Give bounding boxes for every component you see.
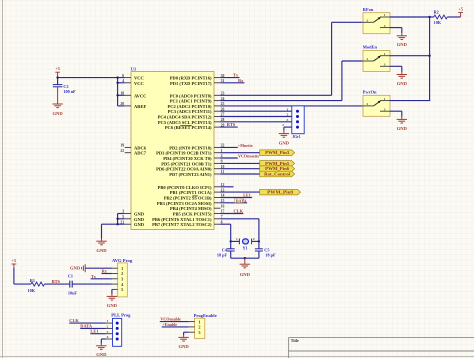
svg-text:CLK: CLK [69,318,79,323]
wire Rx (PD1) [221,82,245,84]
svg-text:22: 22 [120,149,124,153]
wire ProgEnable pin3 to ground [184,331,189,333]
svg-text:AVCC: AVCC [134,93,146,98]
port PWM_Pin6 [260,166,295,172]
wire PC2 to PwrOn [221,105,364,107]
svg-text:PD6 (PCINT22 OC0A AIN0): PD6 (PCINT22 OC0A AIN0) [156,167,212,172]
svg-text:2: 2 [107,325,109,329]
svg-text:5: 5 [121,287,123,292]
wire net LE1 (PB2) [221,197,253,199]
pin 26 PC3 (ADC3 PCINT11) (right) [214,110,221,112]
overline SS on PB2 [192,195,198,197]
pin 4 VCC (left) [125,82,131,84]
capacitor C1 10nF [69,281,71,288]
svg-text:LE1: LE1 [90,329,98,334]
svg-text:3: 3 [384,107,386,111]
svg-text:PD1 (TXD PCINT17): PD1 (TXD PCINT17) [170,81,212,86]
svg-text:PB6 (PCINT6 XTAL1 TOSC1): PB6 (PCINT6 XTAL1 TOSC1) [152,217,212,222]
pin 21 GND (left) [125,223,131,225]
svg-text:C5: C5 [264,247,269,252]
svg-text:100 nF: 100 nF [63,89,76,94]
svg-text:+5: +5 [55,66,59,71]
wire AVG pin1 to GND left [85,267,112,269]
wire PC5 to header [221,121,293,123]
svg-text:1: 1 [384,13,386,17]
svg-text:GND: GND [134,222,145,227]
svg-text:+Muette: +Muette [238,143,253,148]
ground below C3 [57,87,59,104]
svg-text:2: 2 [367,57,369,61]
svg-text:GND: GND [134,217,145,222]
resistor R2 10K [430,16,434,18]
svg-text:3: 3 [384,24,386,28]
svg-text:VCOenable: VCOenable [160,317,181,322]
pin 13 PB1 (PCINT1 OC1A) (right) [214,191,221,193]
svg-text:PWM_Pin9: PWM_Pin9 [267,190,293,195]
wire header pin4 to ground [284,126,292,128]
wire pull-up bus [429,17,431,101]
capacitor C3 100 nF [57,78,59,85]
pin 25 PC2 (ADC2 PCINT10) (right) [214,105,221,107]
connector JGr1 (4-pin header) [292,106,304,134]
wire PC4 to header [221,116,293,118]
wire PD7 to port [221,173,260,175]
wire RFon pin1 [390,16,430,18]
wire PC0 to RFon [221,94,332,96]
pin 5 GND (left) [125,218,131,220]
svg-text:ProgEnable: ProgEnable [194,313,217,318]
svg-text:20: 20 [120,102,124,106]
svg-text:3: 3 [121,277,123,282]
svg-text:PD2 (INT0 PCINT18): PD2 (INT0 PCINT18) [169,145,212,150]
capacitor C5 18 pF [258,241,260,248]
pin 10 PD6 (PCINT22 OC0A AIN0) (right) [214,168,221,170]
pin 15 PB3 (PCINT3 OC2A MOSI) (right) [214,202,221,204]
ground below PLL Prog [100,344,102,346]
wire net DATA (PB3) [221,202,248,204]
pin 2 PLL Prog [106,327,113,329]
wire PD5 to port [221,162,260,164]
svg-text:PD4 (PCINT20 XCK T0): PD4 (PCINT20 XCK T0) [163,156,212,161]
svg-text:PB0 (PCINT0 CLKO ICP1): PB0 (PCINT0 CLKO ICP1) [158,185,212,190]
svg-text:GND: GND [134,212,145,217]
svg-text:PD3 (PCINT19 OC2B INT1): PD3 (PCINT19 OC2B INT1) [156,151,212,156]
svg-text:2: 2 [198,325,200,330]
pin 4 PLL Prog [106,338,113,340]
pin 1 PD3 (PCINT19 OC2B INT1) (right) [214,152,221,154]
pin 3 GND (left) [125,213,131,215]
wire net VCOmuette (PD4) [221,157,238,159]
svg-text:CLK: CLK [234,209,244,214]
pin 28 PC5 (ADC5 SCL PCINT13) (right) [214,121,221,123]
svg-text:PB2 (PCINT2 SS OC1B): PB2 (PCINT2 SS OC1B) [164,196,212,201]
wire PLL pin4 to ground [101,338,106,340]
svg-text:LE1: LE1 [243,193,251,198]
pin 20 AREF (left) [125,105,131,107]
svg-text:PWM_Pin5: PWM_Pin5 [265,161,289,166]
svg-text:ADC6: ADC6 [134,145,147,150]
pin 3 AVG Prog [112,278,118,280]
svg-text:PWM_Pin6: PWM_Pin6 [265,166,289,171]
svg-text:VCOmuette: VCOmuette [238,153,259,158]
pin 29 PC6 (RESET PCINT14) (right) [214,126,221,128]
svg-text:2: 2 [121,271,123,276]
svg-text:C1: C1 [68,273,73,278]
wire PB0 stub [221,186,234,188]
svg-text:PB3 (PCINT3 OC2A MOSI): PB3 (PCINT3 OC2A MOSI) [157,201,212,206]
svg-text:PB7 (PCINT7 XTAL2 TOSC2): PB7 (PCINT7 XTAL2 TOSC2) [152,222,212,227]
svg-text:RFon: RFon [363,7,374,12]
svg-text:DATA: DATA [236,198,247,203]
svg-text:2: 2 [287,113,289,117]
pin 3 ProgEnable [189,331,195,333]
resistor R1 10K [14,283,31,285]
pin 1 PLL Prog [106,322,113,324]
svg-text:GND: GND [107,303,118,308]
svg-text:PC4 (ADC4 SDA PCINT12): PC4 (ADC4 SDA PCINT12) [158,115,212,120]
wire GND pins [117,214,119,225]
svg-text:1: 1 [384,97,386,101]
wire net VCOenable [160,321,189,323]
ground below crystal [244,258,246,264]
wire VCC column [117,78,119,106]
wire AVG pin5 to ground [111,289,113,294]
svg-text:Rot_Control: Rot_Control [264,172,291,177]
svg-text:+5: +5 [12,258,16,263]
svg-text:GND: GND [397,42,408,47]
pin 3 PLL Prog [106,333,113,335]
wire PB6 to crystal right [221,218,259,220]
svg-text:1: 1 [384,52,386,56]
svg-text:AVG Prog: AVG Prog [112,258,133,263]
svg-text:PB1 (PCINT1 OC1A): PB1 (PCINT1 OC1A) [170,190,212,195]
svg-text:4: 4 [282,123,284,127]
svg-text:PC3 (ADC3 PCINT11): PC3 (ADC3 PCINT11) [168,109,212,114]
svg-text:GND: GND [279,141,290,146]
capacitor C4 18 pF [230,241,232,248]
svg-text:JGr1: JGr1 [292,135,301,139]
wire PD3 to port [221,152,260,154]
pin 1 ProgEnable [189,321,195,323]
svg-text:10nF: 10nF [68,291,78,296]
wire net +Enable [162,326,189,328]
svg-text:1: 1 [287,107,289,111]
svg-text:GND: GND [96,248,107,253]
wire net Rx (AVG pin2) [102,273,112,275]
port PWM_Pin9 [260,189,301,195]
svg-text:AREF: AREF [134,104,147,109]
pin 24 PC1 (ADC1 PCINT9) (right) [214,100,221,102]
ground (sideways) at AVG pin1 [84,264,86,272]
port PWM_Pin3 [260,150,295,156]
svg-text:18 pF: 18 pF [265,253,276,258]
svg-text:PD7 (PCINT23 AIN1): PD7 (PCINT23 AIN1) [169,172,212,177]
pin 23 PC0 (ADC0 PCINT8) (right) [214,94,221,96]
ground for header [283,131,285,134]
pin 30 PD0 (RXD PCINT16) (right) [214,77,221,79]
svg-text:C4: C4 [222,247,228,252]
wire PC3 to header [221,110,293,112]
svg-text:PD5 (PCINT21 OC0B T1): PD5 (PCINT21 OC0B T1) [161,161,212,166]
wire +5 to VCC [58,77,125,79]
crystal Y1 [231,240,240,242]
op-amp U1 ATmega MCU body [131,72,214,230]
wire crystal bottom [231,257,259,259]
node VCC junction [56,76,58,78]
svg-text:6: 6 [122,74,124,78]
wire RTS (PC6) [221,126,238,128]
svg-text:2: 2 [253,237,255,241]
svg-text:4: 4 [122,79,124,83]
svg-text:ADC7: ADC7 [134,151,147,156]
overline RESET on PC6 [180,125,192,127]
pin 14 PB2 (PCINT2 SS OC1B) (right) [214,197,221,199]
title block [288,337,290,358]
svg-text:3: 3 [107,330,109,334]
svg-text:10K: 10K [434,20,442,25]
wire net Tx (AVG pin3) [91,278,112,280]
svg-text:3: 3 [198,330,200,335]
ground below ProgEnable [183,335,185,337]
pin 4 AVG Prog [112,283,118,285]
svg-text:Y1: Y1 [243,245,248,250]
pin 9 PD5 (PCINT21 OC0B T1) (right) [214,162,221,164]
wire net DATA (PLL pin2) [80,327,106,329]
wire PD6 to port [221,168,260,170]
pin 31 PD1 (TXD PCINT17) (right) [214,82,221,84]
wire C1 to header [72,283,112,285]
pin 2 PD4 (PCINT20 XCK T0) (right) [214,157,221,159]
svg-text:GND: GND [240,272,251,277]
pin 6 VCC (left) [125,77,131,79]
pin 1 AVG Prog [112,267,118,269]
svg-text:PC6 (RESET PCINT14): PC6 (RESET PCINT14) [165,125,212,130]
svg-text:PwrOn: PwrOn [363,90,377,95]
svg-text:3: 3 [287,118,289,122]
svg-text:ModEn: ModEn [363,45,378,50]
svg-text:GND: GND [52,111,63,116]
ground below IC [101,239,103,242]
svg-text:RTS: RTS [52,279,61,284]
port PWM_Pin5 [260,161,295,167]
wire net LE1 (PLL pin3) [90,333,105,335]
svg-text:1: 1 [107,319,109,323]
pin 12 PB0 (PCINT0 CLKO ICP1) (right) [214,186,221,188]
wire Tx (PD0) [221,77,240,79]
svg-text:PLL Prog: PLL Prog [111,313,131,318]
wire PwrOn pin1 [390,100,430,102]
wire +5 down [13,268,15,284]
wire net +Muette (PD2) [221,146,238,148]
pin 18 AVCC (left) [125,94,131,96]
svg-text:GND: GND [178,344,189,349]
svg-text:18: 18 [120,92,124,96]
svg-text:PC5 (ADC5 SCL PCINT13): PC5 (ADC5 SCL PCINT13) [158,120,212,125]
svg-text:GND: GND [397,81,408,86]
svg-text:19: 19 [120,144,124,148]
pin 7 PB6 (PCINT6 XTAL1 TOSC1) (right) [214,218,221,220]
pin 17 PB5 (SCK PCINT5) (right) [214,213,221,215]
svg-text:Title: Title [291,338,299,343]
pin 8 PB7 (PCINT7 XTAL2 TOSC2) (right) [214,223,221,225]
pin 27 PC4 (ADC4 SDA PCINT12) (right) [214,116,221,118]
pin 19 ADC6 (left) [125,146,131,148]
svg-text:+Enable: +Enable [162,322,177,327]
svg-text:+5: +5 [458,6,462,11]
pin 16 PB4 (PCINT4 MISO) (right) [214,207,221,209]
svg-text:PB4 (PCINT4 MISO): PB4 (PCINT4 MISO) [170,206,212,211]
svg-text:VCC: VCC [134,81,144,86]
svg-text:10K: 10K [28,288,36,293]
wire net CLK (PB5) [221,213,244,215]
pin 2 AVG Prog [112,273,118,275]
svg-text:16: 16 [221,204,225,208]
svg-text:R2: R2 [434,10,439,15]
svg-text:3: 3 [384,63,386,67]
svg-text:4: 4 [107,335,109,339]
svg-text:2: 2 [367,102,369,106]
pin 11 PD7 (PCINT23 AIN1) (right) [214,173,221,175]
sheet border [2,0,4,358]
svg-text:18 pF: 18 pF [217,253,228,258]
pin 22 ADC7 (left) [125,152,131,154]
svg-text:1: 1 [236,237,238,241]
wire PB7 to crystal left [221,223,231,225]
svg-text:1: 1 [198,319,200,324]
svg-text:RTS: RTS [227,122,236,127]
svg-text:PC2 (ADC2 PCINT10): PC2 (ADC2 PCINT10) [168,104,212,109]
wire PC1 to ModEn [221,100,342,102]
wire net RTS [44,283,69,285]
svg-text:GND: GND [397,126,408,131]
wire PB1 to port [221,191,260,193]
pin 2 ProgEnable [189,326,195,328]
port Rot_Control [260,171,295,177]
svg-text:PC1 (ADC1 PCINT9): PC1 (ADC1 PCINT9) [170,99,212,104]
svg-text:PC0 (ADC0 PCINT8): PC0 (ADC0 PCINT8) [170,93,212,98]
svg-text:1: 1 [121,266,123,271]
svg-text:Rx: Rx [238,78,244,83]
svg-text:GND: GND [96,352,107,357]
svg-text:PB5 (SCK PCINT5): PB5 (SCK PCINT5) [173,212,212,217]
svg-text:GND: GND [70,266,81,271]
svg-text:PWM_Pin3: PWM_Pin3 [265,150,289,155]
svg-text:DATA: DATA [80,323,93,328]
pin 5 AVG Prog [112,288,118,290]
svg-text:U1: U1 [131,66,136,71]
svg-text:R1: R1 [30,278,35,283]
wire net CLK (PLL pin1) [69,322,106,324]
pin 32 PD2 (INT0 PCINT18) (right) [214,146,221,148]
wire ModEn pin1 [390,55,430,57]
svg-text:2: 2 [367,18,369,22]
ground below AVG Prog [111,294,113,296]
